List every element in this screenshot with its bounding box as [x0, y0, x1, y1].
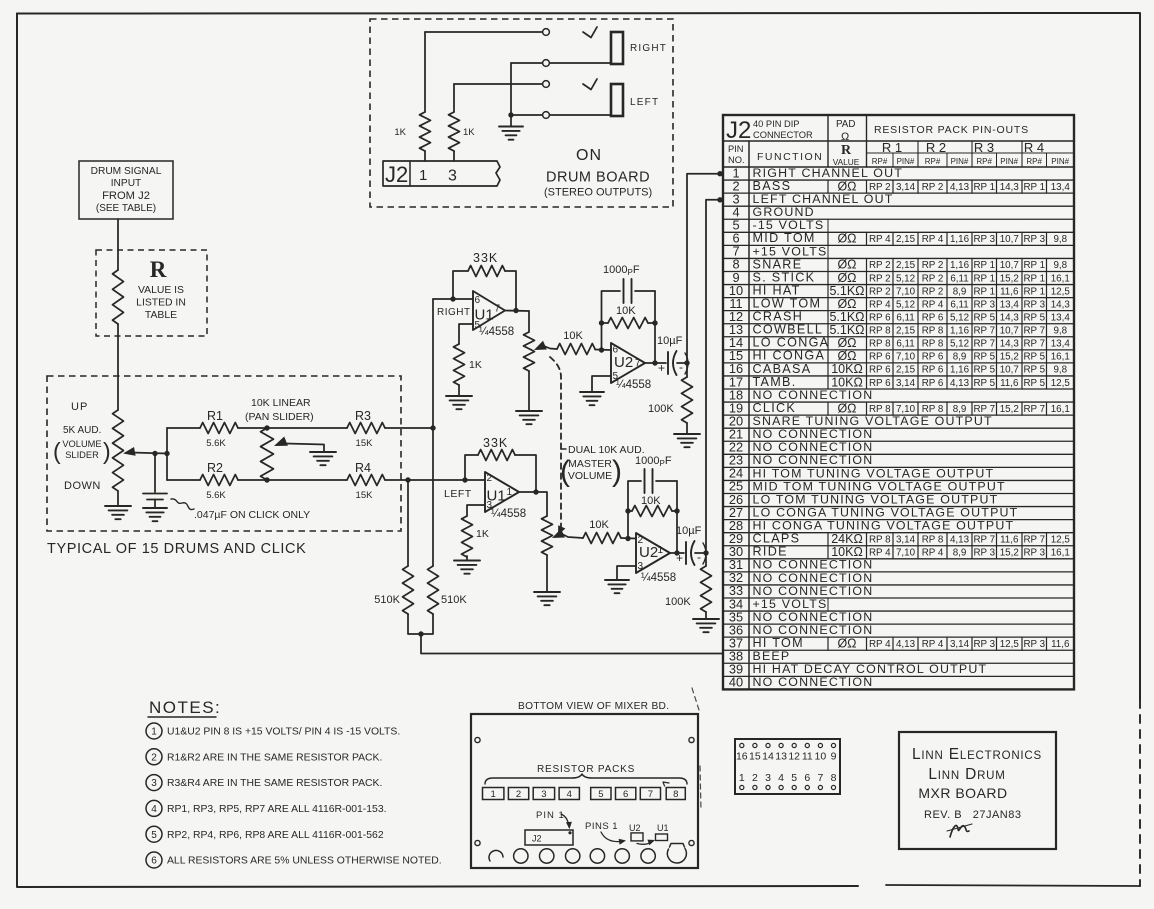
connector J2 (drum board)	[383, 161, 500, 186]
svg-text:12,5: 12,5	[1051, 378, 1071, 389]
wire U1 output	[505, 310, 529, 313]
wiper volume slider	[123, 447, 136, 456]
svg-text:6,11: 6,11	[950, 273, 968, 284]
svg-text:-: -	[697, 550, 701, 564]
svg-text:+15 VOLTS: +15 VOLTS	[753, 244, 828, 258]
svg-text:NO CONNECTION: NO CONNECTION	[753, 453, 874, 467]
wire 10K to U2 (left)	[621, 537, 636, 540]
svg-text:DRUM BOARD: DRUM BOARD	[546, 170, 650, 186]
dip bottom pads	[740, 785, 744, 789]
svg-text:ØΩ: ØΩ	[837, 336, 856, 350]
svg-text:VALUE IS: VALUE IS	[138, 285, 184, 296]
node feedback right	[652, 320, 657, 325]
resistor pack RP3 socket	[533, 788, 554, 800]
svg-text:R 1: R 1	[882, 140, 902, 155]
svg-text:3: 3	[151, 778, 157, 789]
svg-text:RP 1: RP 1	[973, 273, 995, 284]
svg-text:1K: 1K	[469, 359, 482, 371]
svg-text:RP 6: RP 6	[922, 365, 944, 376]
svg-text:RP 1: RP 1	[1023, 182, 1045, 193]
svg-text:+: +	[676, 551, 683, 565]
svg-text:ØΩ: ØΩ	[837, 297, 856, 311]
svg-text:RP 3: RP 3	[1023, 639, 1045, 650]
node table pin3	[717, 197, 722, 202]
svg-text:16,1: 16,1	[1051, 404, 1070, 415]
svg-text:¼4558: ¼4558	[616, 379, 651, 391]
svg-text:RP 1: RP 1	[973, 260, 995, 271]
svg-text:HI TOM TUNING VOLTAGE OUTPUT: HI TOM TUNING VOLTAGE OUTPUT	[753, 466, 995, 480]
board pads row	[489, 850, 503, 861]
svg-text:ALL RESISTORS ARE 5% UNLESS O: ALL RESISTORS ARE 5% UNLESS OTHERWISE NO…	[167, 856, 442, 867]
svg-text:1,16: 1,16	[950, 365, 970, 376]
svg-text:ØΩ: ØΩ	[837, 232, 856, 246]
svg-text:MXR BOARD: MXR BOARD	[918, 785, 1007, 801]
svg-text:2: 2	[151, 752, 157, 763]
title block	[899, 732, 1056, 849]
svg-text:FUNCTION: FUNCTION	[757, 151, 823, 163]
svg-text:HI CONGA: HI CONGA	[753, 349, 826, 363]
svg-text:RP 7: RP 7	[1023, 534, 1045, 545]
wire R4 to left opamp	[385, 479, 485, 481]
svg-text:7: 7	[635, 358, 641, 369]
svg-text:2,15: 2,15	[896, 260, 916, 271]
wire U2 output	[645, 362, 666, 364]
svg-text:16: 16	[736, 751, 748, 763]
svg-text:15,2: 15,2	[1000, 548, 1019, 559]
svg-text:2: 2	[752, 772, 758, 784]
svg-text:U1: U1	[657, 823, 669, 833]
svg-text:R: R	[841, 143, 852, 158]
svg-text:CLICK: CLICK	[753, 401, 797, 415]
table column pin/function	[748, 141, 750, 689]
svg-text:5.1KΩ: 5.1KΩ	[829, 323, 864, 337]
svg-text:HI HAT DECAY CONTROL OUTPUT: HI HAT DECAY CONTROL OUTPUT	[753, 662, 988, 676]
svg-text:14,3: 14,3	[1051, 299, 1071, 310]
svg-text:14,3: 14,3	[1000, 182, 1020, 193]
dip socket pinout box	[735, 739, 840, 794]
svg-text:COWBELL: COWBELL	[753, 323, 824, 337]
table header column lines	[827, 115, 829, 167]
svg-text:1: 1	[419, 167, 427, 184]
svg-text:R: R	[150, 257, 167, 282]
svg-text:RP 8: RP 8	[869, 534, 891, 545]
svg-text:RIGHT: RIGHT	[437, 307, 471, 318]
svg-text:15,2: 15,2	[1000, 404, 1019, 415]
svg-text:15,2: 15,2	[1000, 273, 1019, 284]
svg-text:10K: 10K	[589, 519, 609, 531]
svg-text:MID TOM TUNING VOLTAGE OUTPUT: MID TOM TUNING VOLTAGE OUTPUT	[753, 479, 1006, 493]
svg-text:INPUT: INPUT	[111, 178, 142, 189]
node bus to cap	[684, 360, 689, 365]
terminal left tip	[543, 81, 550, 88]
svg-text:DUAL 10K AUD.: DUAL 10K AUD.	[568, 444, 645, 456]
svg-text:33K: 33K	[483, 436, 508, 450]
resistor 1K (left ch)	[462, 516, 473, 557]
svg-text:RP 4: RP 4	[922, 234, 944, 245]
resistor 1K (right ch)	[454, 344, 465, 385]
op-amp U1 (right half)	[473, 291, 505, 330]
svg-text:40: 40	[729, 675, 743, 690]
svg-text:RP 8: RP 8	[922, 534, 944, 545]
svg-text:1,16: 1,16	[950, 326, 970, 337]
svg-text:10,7: 10,7	[1000, 365, 1019, 376]
svg-text:R 2: R 2	[926, 140, 946, 155]
svg-text:RP 2: RP 2	[922, 260, 944, 271]
svg-text:1,16: 1,16	[950, 234, 970, 245]
svg-text:RP 1: RP 1	[1023, 273, 1045, 284]
arrow pins1 to U2 U1	[601, 832, 624, 842]
svg-text:PIN#: PIN#	[1000, 157, 1018, 166]
svg-text:1: 1	[491, 789, 496, 800]
svg-text:13,4: 13,4	[1051, 182, 1071, 193]
svg-text:R 3: R 3	[974, 140, 994, 155]
svg-text:4: 4	[567, 789, 572, 800]
svg-text:RP#: RP#	[1026, 157, 1042, 166]
jack LEFT	[611, 84, 623, 116]
svg-text:LEFT: LEFT	[630, 97, 659, 108]
wire node to R2	[167, 479, 200, 481]
wire right input	[433, 298, 473, 300]
svg-text:6: 6	[804, 772, 810, 784]
svg-text:DOWN: DOWN	[64, 480, 101, 492]
svg-text:RP 4: RP 4	[922, 639, 944, 650]
svg-text:VOLUME: VOLUME	[568, 470, 612, 482]
svg-text:LEFT CHANNEL OUT: LEFT CHANNEL OUT	[753, 192, 894, 206]
note 3	[146, 775, 162, 791]
wire U1 output (left)	[519, 491, 536, 493]
svg-text:13,4: 13,4	[1000, 299, 1020, 310]
node table pin1	[717, 171, 722, 176]
svg-text:NO CONNECTION: NO CONNECTION	[753, 388, 874, 402]
svg-text:RP 2: RP 2	[869, 273, 891, 284]
dashed box R value table	[96, 250, 207, 336]
svg-text:RP 7: RP 7	[1023, 339, 1045, 350]
svg-text:5,12: 5,12	[896, 299, 915, 310]
svg-text:10,7: 10,7	[1000, 234, 1019, 245]
svg-text:9,8: 9,8	[1053, 365, 1067, 376]
label .047uF ON CLICK ONLY	[171, 499, 194, 510]
resistor R (drum input)	[113, 270, 124, 324]
ground master volume left	[534, 591, 560, 593]
resistor 10K (right input)	[557, 344, 595, 355]
svg-text:RP 8: RP 8	[922, 326, 944, 337]
svg-text:RP 8: RP 8	[869, 326, 891, 337]
node feedback left (left ch)	[625, 508, 630, 513]
wiper pan slider	[274, 437, 288, 447]
wire R3 to right bus	[385, 427, 433, 429]
wire R2 to pan	[238, 479, 267, 481]
svg-text:12,5: 12,5	[1051, 534, 1071, 545]
capacitor 1000pF (left)	[644, 469, 646, 493]
svg-text:U1: U1	[475, 307, 494, 324]
svg-text:SLIDER: SLIDER	[65, 450, 99, 460]
svg-text:RP 7: RP 7	[973, 339, 995, 350]
svg-text:RP 6: RP 6	[869, 365, 891, 376]
wire ground bus drum board	[510, 63, 512, 127]
note 2	[146, 749, 162, 765]
svg-text:1000PF: 1000PF	[603, 264, 640, 277]
mount hole bottom-left	[475, 840, 480, 845]
potentiometer master volume (right)	[528, 311, 530, 332]
svg-text:+15 VOLTS: +15 VOLTS	[753, 597, 828, 611]
svg-text:LISTED IN: LISTED IN	[136, 298, 186, 309]
svg-text:2,15: 2,15	[896, 326, 916, 337]
svg-text:PAD: PAD	[836, 119, 855, 130]
node 510K join	[418, 631, 423, 636]
svg-text:MASTER: MASTER	[568, 458, 612, 470]
svg-text:6,11: 6,11	[896, 312, 914, 323]
svg-text:5,12: 5,12	[896, 273, 915, 284]
svg-text:4,13: 4,13	[950, 182, 970, 193]
svg-text:HI CONGA TUNING VOLTAGE OUTPUT: HI CONGA TUNING VOLTAGE OUTPUT	[753, 519, 1015, 533]
svg-text:RP 3: RP 3	[973, 548, 995, 559]
svg-text:15K: 15K	[356, 490, 374, 501]
ground volume slider	[105, 505, 131, 507]
svg-text:12,5: 12,5	[1051, 286, 1071, 297]
terminal right sleeve	[543, 60, 550, 67]
node output node left	[674, 550, 679, 555]
ground U2 right	[580, 391, 604, 393]
svg-text:8,9: 8,9	[953, 286, 967, 297]
svg-text:PIN#: PIN#	[951, 157, 969, 166]
svg-text:3,14: 3,14	[896, 378, 916, 389]
op-amp U2 (right half)	[611, 343, 645, 383]
wire U2 feedback right (left ch)	[676, 481, 678, 553]
svg-text:5: 5	[598, 789, 603, 800]
svg-text:14,3: 14,3	[1000, 312, 1020, 323]
capacitor 1000pF (right)	[623, 279, 625, 303]
wire to table pin38	[421, 634, 723, 654]
svg-text:(PAN SLIDER): (PAN SLIDER)	[245, 411, 314, 423]
svg-text:.047µF ON CLICK ONLY: .047µF ON CLICK ONLY	[194, 509, 310, 521]
wire feedback left vertical (left ch)	[465, 455, 478, 480]
svg-text:HI TOM: HI TOM	[753, 636, 804, 650]
resistor pack RP4 socket	[559, 788, 579, 800]
svg-text:9: 9	[831, 751, 837, 763]
svg-text:LEFT: LEFT	[444, 488, 472, 500]
dashed enclosure ON DRUM BOARD	[370, 19, 673, 207]
svg-text:¼4558: ¼4558	[491, 508, 526, 520]
svg-text:6: 6	[475, 295, 481, 306]
svg-text:PIN#: PIN#	[1051, 157, 1069, 166]
svg-text:8,9: 8,9	[953, 548, 967, 559]
node pan bottom	[264, 477, 269, 482]
svg-text:PIN#: PIN#	[897, 157, 915, 166]
node feedback right (left ch)	[674, 508, 679, 513]
switch contact right jack	[583, 27, 597, 38]
node output node right	[652, 360, 657, 365]
svg-text:11,6: 11,6	[1000, 534, 1019, 545]
svg-text:15: 15	[749, 751, 761, 763]
resistor pack RP8 socket	[666, 788, 685, 800]
resistor 1K (left)	[453, 84, 455, 112]
svg-text:RP 1: RP 1	[1023, 260, 1045, 271]
svg-text:14: 14	[762, 751, 774, 763]
svg-text:SNARE: SNARE	[753, 257, 803, 271]
node output feedback junction left	[533, 489, 538, 494]
svg-text:5,12: 5,12	[950, 312, 969, 323]
svg-text:5.6K: 5.6K	[206, 490, 226, 501]
wire U2 pin5 to ground	[592, 376, 611, 392]
svg-text:RP 4: RP 4	[869, 639, 891, 650]
svg-text:FROM J2: FROM J2	[102, 190, 150, 202]
svg-text:S. STICK: S. STICK	[753, 270, 816, 284]
svg-text:8: 8	[831, 772, 837, 784]
node wiper junction	[164, 451, 169, 456]
ground .047uF	[143, 507, 167, 509]
wire pan to R4	[267, 479, 347, 481]
resistor 10K (right feedback)	[602, 322, 609, 324]
svg-text:BOTTOM VIEW OF MIXER BD.: BOTTOM VIEW OF MIXER BD.	[518, 701, 669, 712]
svg-text:NO CONNECTION: NO CONNECTION	[753, 558, 874, 572]
wire U2 feedback right	[654, 291, 656, 363]
svg-text:R1&R2 ARE IN THE SAME RESISTOR: R1&R2 ARE IN THE SAME RESISTOR PACK.	[167, 752, 382, 763]
svg-text:ØΩ: ØΩ	[837, 636, 856, 650]
svg-text:16,1: 16,1	[1051, 548, 1070, 559]
node U2 inverting input	[599, 347, 604, 352]
svg-text:3,14: 3,14	[950, 639, 970, 650]
dip top pads	[740, 743, 744, 747]
svg-text:Ω: Ω	[841, 131, 849, 143]
svg-text:CONNECTOR: CONNECTOR	[753, 130, 813, 140]
potentiometer 10K linear pan slider	[261, 428, 274, 480]
svg-text:(: (	[560, 455, 570, 488]
svg-text:TAMB.: TAMB.	[753, 375, 797, 389]
svg-text:+: +	[658, 361, 665, 375]
ground 100K right	[674, 433, 700, 435]
svg-text:5.1KΩ: 5.1KΩ	[829, 284, 864, 298]
svg-text:RP 1: RP 1	[973, 286, 995, 297]
svg-text:CRASH: CRASH	[753, 310, 804, 324]
svg-text:RP 4: RP 4	[922, 548, 944, 559]
svg-text:R2: R2	[207, 461, 223, 475]
wire pan to R3	[267, 427, 347, 429]
svg-text:REV. B 27JAN83: REV. B 27JAN83	[924, 809, 1021, 821]
svg-text:(SEE TABLE): (SEE TABLE)	[96, 203, 156, 214]
wire R1 to pan	[238, 427, 267, 429]
ground 1K left	[454, 560, 480, 562]
svg-text:ØΩ: ØΩ	[837, 349, 856, 363]
terminal right tip	[543, 29, 550, 36]
node feedback tap right	[450, 296, 455, 301]
resistor 1K (right)	[424, 32, 426, 112]
svg-text:1K: 1K	[463, 127, 475, 138]
svg-text:RP 7: RP 7	[973, 326, 995, 337]
svg-text:RP 4: RP 4	[869, 299, 891, 310]
capacitor 10uF (left)	[685, 542, 687, 564]
svg-text:6,11: 6,11	[896, 339, 914, 350]
svg-text:U2: U2	[639, 544, 658, 561]
wire U1 pin3	[467, 505, 485, 516]
svg-text:U1: U1	[487, 488, 506, 505]
wire U2 feedback left (left ch)	[628, 481, 641, 539]
svg-text:1000PF: 1000PF	[635, 455, 672, 468]
resistor pack RP5 socket	[591, 788, 611, 800]
svg-text:10µF: 10µF	[657, 335, 683, 347]
svg-text:RP 5: RP 5	[973, 312, 995, 323]
note 4	[146, 800, 162, 816]
svg-text:ON: ON	[576, 147, 602, 164]
input box DRUM SIGNAL INPUT FROM J2	[79, 161, 173, 219]
resistor R1 5.6K	[200, 423, 238, 434]
svg-text:SNARE TUNING VOLTAGE OUTPUT: SNARE TUNING VOLTAGE OUTPUT	[753, 414, 993, 428]
svg-text:24KΩ: 24KΩ	[831, 532, 863, 546]
svg-text:RP 4: RP 4	[922, 299, 944, 310]
svg-text:1K: 1K	[476, 528, 489, 540]
svg-text:4,13: 4,13	[950, 534, 970, 545]
svg-text:10µF: 10µF	[676, 525, 702, 537]
svg-text:6: 6	[623, 789, 628, 800]
svg-text:U1&U2 PIN 8 IS +15 VOLTS/ PIN: U1&U2 PIN 8 IS +15 VOLTS/ PIN 4 IS -15 V…	[167, 727, 400, 738]
resistor R3 15K	[347, 423, 385, 434]
svg-text:RP 5: RP 5	[1023, 352, 1045, 363]
mount hole bottom-right	[689, 840, 694, 845]
svg-text:5.6K: 5.6K	[206, 438, 226, 449]
svg-text:RP 8: RP 8	[869, 339, 891, 350]
wire 510K join	[408, 614, 433, 634]
svg-text:8,9: 8,9	[953, 352, 967, 363]
svg-text:RP 2: RP 2	[922, 273, 944, 284]
table J2 connector outer	[723, 115, 1074, 689]
resistor R2 5.6K	[200, 475, 238, 486]
svg-text:9,8: 9,8	[1053, 326, 1067, 337]
resistor 33K (right ch)	[468, 266, 505, 277]
svg-text:6: 6	[151, 856, 157, 867]
wire J2 pin3 to left jack tip	[454, 83, 542, 85]
svg-text:2: 2	[516, 789, 521, 800]
svg-text:510K: 510K	[374, 594, 400, 606]
svg-text:11,6: 11,6	[1000, 286, 1019, 297]
svg-text:LO CONGA: LO CONGA	[753, 336, 830, 350]
ground master volume right	[516, 410, 542, 412]
svg-text:1,16: 1,16	[950, 260, 970, 271]
svg-text:LO CONGA TUNING VOLTAGE OUTPUT: LO CONGA TUNING VOLTAGE OUTPUT	[753, 505, 1019, 519]
svg-text:3: 3	[541, 789, 546, 800]
potentiometer 5K volume slider	[113, 410, 124, 491]
svg-text:NO CONNECTION: NO CONNECTION	[753, 675, 874, 689]
svg-text:15,2: 15,2	[1000, 352, 1019, 363]
ground 100K left	[693, 618, 719, 620]
svg-text:5: 5	[791, 772, 797, 784]
svg-text:3: 3	[765, 772, 771, 784]
svg-text:ØΩ: ØΩ	[837, 271, 856, 285]
svg-text:RESISTOR PACK PIN-OUTS: RESISTOR PACK PIN-OUTS	[874, 124, 1029, 136]
svg-text:1: 1	[151, 727, 157, 738]
svg-text:9,8: 9,8	[1053, 260, 1067, 271]
node output feedback junction	[513, 308, 518, 313]
wire left 510K drop	[407, 480, 409, 566]
node R3 bus junction	[430, 425, 435, 430]
wire U2 pin3 to ground (left)	[617, 566, 636, 580]
svg-text:UP: UP	[71, 401, 88, 413]
svg-text:7,10: 7,10	[896, 548, 916, 559]
svg-text:1: 1	[507, 487, 513, 498]
svg-text:RP 6: RP 6	[922, 352, 944, 363]
svg-text:RP 7: RP 7	[973, 534, 995, 545]
svg-text:RP 2: RP 2	[869, 260, 891, 271]
resistor 100K (left)	[705, 553, 707, 566]
wire U2 output (left)	[670, 552, 684, 554]
svg-text:RP 3: RP 3	[1023, 548, 1045, 559]
connector J2 socket	[525, 830, 573, 845]
svg-text:10,7: 10,7	[1000, 326, 1019, 337]
svg-text:7: 7	[495, 304, 501, 315]
svg-text:RP 6: RP 6	[869, 352, 891, 363]
svg-text:RP 1: RP 1	[1023, 286, 1045, 297]
ground U2 left	[605, 579, 629, 581]
svg-text:-: -	[679, 360, 683, 374]
terminal left sleeve	[543, 112, 550, 119]
